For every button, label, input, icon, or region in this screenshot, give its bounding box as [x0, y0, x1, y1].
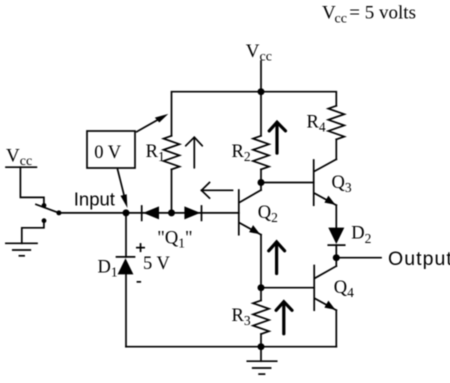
junction R1 bottom dot [168, 209, 175, 216]
switch lever [36, 204, 59, 213]
wire R1 bottom to input line [171, 169, 173, 213]
junction Q2 emitter node [258, 284, 265, 291]
switch pole dot [56, 210, 61, 215]
arrow pointing left at Q2 base [202, 183, 233, 199]
label - [137, 281, 142, 283]
label D2 [351, 224, 371, 247]
arrow current up beside Q2 emitter [269, 242, 285, 274]
arrow pointer from box to input node [118, 170, 128, 209]
label Q3 [332, 173, 352, 195]
arrow current up beside R1 [186, 137, 203, 168]
junction R2/Q2 collector node [258, 179, 265, 186]
wire input node down to D1 [125, 213, 127, 257]
arrow pointer from box to R1 wire [137, 114, 169, 132]
wire R2 bottom to node [260, 169, 262, 182]
resistor R2 [253, 136, 269, 170]
label Q2 [258, 203, 278, 225]
wire node to Q4 base [261, 287, 314, 289]
transistor Q3 [314, 159, 337, 205]
wire output [336, 257, 381, 259]
label Output [388, 248, 450, 270]
label R4 [307, 113, 326, 135]
switch upper contact dot [42, 203, 47, 208]
wire Q3 emitter to D2 [335, 205, 337, 227]
node Vcc (top supply label) [246, 41, 272, 65]
wire R2 top stub [260, 92, 262, 136]
wire Vcc stub down to rail [260, 61, 262, 92]
diode Q1 base-emitter (pointing left) [142, 206, 159, 220]
wire R4 bottom to Q3 collector [335, 139, 337, 159]
label D1 [98, 258, 118, 280]
label + [136, 243, 145, 252]
wire D2 to output node [335, 245, 337, 258]
junction Vcc rail dot [258, 88, 265, 95]
label R3 [232, 306, 251, 328]
label Input [74, 188, 115, 209]
junction output node [333, 254, 340, 261]
label 5 V [143, 254, 171, 274]
transistor Q2 [239, 183, 261, 235]
svg-text:5 V: 5 V [143, 254, 171, 274]
wire bottom rail [126, 346, 336, 348]
wire D1 to bottom rail [125, 274, 127, 346]
svg-text:"Q1": "Q1" [157, 228, 192, 250]
diode Q1 base-collector (pointing right) [184, 206, 201, 220]
ground (switch) [6, 243, 37, 256]
svg-text:Input: Input [74, 188, 115, 209]
wire lower contact to ground [22, 221, 44, 243]
label Q4 [334, 278, 354, 300]
label R1 [146, 142, 165, 164]
junction input node [123, 209, 130, 216]
annotation box 0 V [87, 131, 135, 168]
wire top supply rail [172, 92, 337, 136]
title Vcc = 5 volts [322, 2, 416, 26]
wire input line from switch pole to Q2 base [59, 212, 239, 214]
wire Vcc bar to switch upper contact [20, 167, 44, 206]
junction ground node [258, 343, 265, 350]
resistor R3 [253, 288, 269, 347]
transistor Q4 [314, 258, 336, 311]
label R2 [232, 142, 251, 164]
arrow current up beside R2 [269, 122, 285, 153]
resistor R1 [164, 136, 180, 170]
resistor R4 [328, 106, 344, 140]
svg-text:Output: Output [388, 248, 450, 270]
node Vcc (left supply for switch) [6, 145, 32, 169]
arrow current up beside R3 [276, 302, 292, 334]
wire node to Q3 base [261, 182, 314, 184]
wire Q2 emitter down to node [260, 235, 262, 288]
wire Q4 emitter to bottom rail [335, 310, 337, 347]
svg-text:0 V: 0 V [94, 143, 122, 163]
diode D1 (pointing up) [117, 257, 135, 275]
switch lower contact dot [42, 218, 47, 223]
power bar left Vcc [6, 166, 36, 168]
diode D2 (pointing down) [328, 228, 344, 246]
label "Q1" [157, 228, 192, 250]
ground (bottom) [247, 347, 276, 374]
